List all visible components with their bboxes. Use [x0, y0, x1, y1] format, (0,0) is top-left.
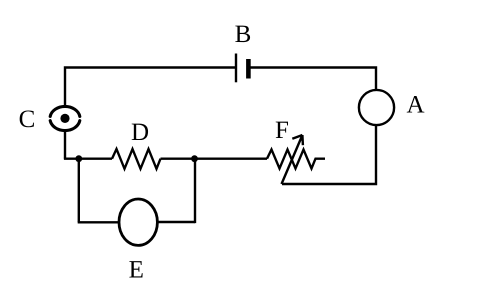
battery B plate short: [246, 59, 251, 79]
wire top-right horizontal (battery to A): [250, 68, 377, 91]
rheostat F wiper arrow: [282, 135, 303, 184]
wire E-loop bottom-right horizontal: [157, 221, 195, 223]
wire E-loop bottom-left horizontal: [78, 221, 120, 223]
lamp C bottom arc: [50, 121, 80, 131]
wire left vertical below C to main node: [64, 131, 66, 159]
wire E-loop left vertical: [78, 159, 80, 223]
svg-text:C: C: [19, 106, 36, 133]
svg-text:F: F: [275, 117, 289, 144]
svg-text:D: D: [131, 119, 149, 146]
rheostat F zigzag: [267, 150, 325, 169]
lamp C top arc: [50, 106, 80, 116]
wire main horizontal left (node to D): [64, 157, 112, 159]
ammeter A: [359, 90, 394, 125]
voltmeter E: [119, 199, 157, 245]
wire right vertical lower: [282, 125, 376, 184]
svg-text:A: A: [406, 92, 424, 119]
resistor D: [112, 149, 161, 169]
wire main horizontal middle (D to F): [161, 157, 268, 159]
lamp C center dot: [60, 114, 69, 123]
svg-text:B: B: [235, 21, 252, 48]
wire top-left horizontal (to battery): [65, 68, 236, 108]
node junction left (dot): [75, 155, 82, 162]
battery B plate long: [235, 54, 237, 83]
node junction right (dot): [191, 155, 198, 162]
wire E-loop right vertical: [194, 159, 196, 223]
svg-text:E: E: [129, 257, 144, 284]
